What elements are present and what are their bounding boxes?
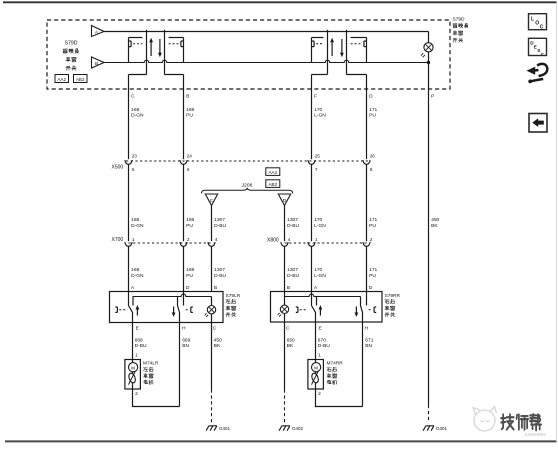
wire line B (window down feed) with hops xyxy=(104,60,429,62)
svg-text:1307: 1307 xyxy=(287,267,298,273)
svg-text:PU: PU xyxy=(186,113,193,119)
motor M74RR pin 2 xyxy=(318,391,321,397)
wire 1307 D-BU segment 2 xyxy=(284,206,286,242)
right rear window switch S79RR outline xyxy=(271,292,383,323)
svg-text:L-GN: L-GN xyxy=(314,273,326,279)
switch S79D LR pair left detent bracket xyxy=(129,41,142,47)
label 1307 D-BU (seg 2) xyxy=(214,217,226,229)
pin B of S79D xyxy=(186,93,189,99)
wire to ground G402 (dashed) xyxy=(284,390,286,423)
pin B rear switch top xyxy=(214,285,217,291)
svg-text:2: 2 xyxy=(187,237,190,242)
svg-text:X500: X500 xyxy=(112,164,124,170)
wire 450 BK from pin P xyxy=(428,89,430,405)
wire 670 D-BU to motor xyxy=(315,322,317,360)
pin D of S79D xyxy=(369,93,373,99)
connector X800 terminal 2 xyxy=(363,237,373,246)
S79RR illumination lamp xyxy=(278,297,289,317)
label 1307 D-BU (seg 2) xyxy=(287,217,299,229)
label 169 PU (seg 1) xyxy=(186,107,194,119)
S79RR up arrow xyxy=(319,305,323,316)
S79RR wire from pin B xyxy=(284,292,286,297)
pin F of S79D xyxy=(314,93,317,99)
svg-text:171: 171 xyxy=(369,267,377,273)
wire 1307 D-BU segment 3 xyxy=(211,246,213,291)
svg-text:H: H xyxy=(365,326,369,332)
wire 168 D-GN segment 3 xyxy=(128,246,130,291)
switch S79D RR pair down arrow xyxy=(340,39,344,57)
svg-text:C: C xyxy=(131,93,135,99)
svg-text:C: C xyxy=(213,326,217,332)
svg-text:450: 450 xyxy=(431,217,439,223)
S79RR right detent bracket xyxy=(369,307,377,312)
label J206 xyxy=(242,183,253,189)
svg-text:H: H xyxy=(182,326,186,332)
label 450 BK (left) xyxy=(214,337,222,349)
switch S79D RR pair up blade xyxy=(327,30,329,75)
S79RR up switch blade xyxy=(312,306,316,323)
svg-text:7: 7 xyxy=(315,167,318,172)
S79RR left detent bracket xyxy=(296,307,307,312)
svg-text:PU: PU xyxy=(369,113,376,119)
svg-text:170: 170 xyxy=(314,107,322,113)
brace J206 xyxy=(202,188,293,194)
S79RR wire from pin D xyxy=(366,292,368,306)
pin P of S79D xyxy=(431,93,434,99)
svg-text:2: 2 xyxy=(135,391,138,397)
switch S79D LR pair right detent bracket xyxy=(169,41,183,47)
svg-text:2: 2 xyxy=(370,237,373,242)
svg-text:J206: J206 xyxy=(242,183,253,189)
wire 1307 D-BU segment 2 xyxy=(211,206,213,242)
connector triangle A xyxy=(92,26,105,37)
svg-text:170: 170 xyxy=(314,217,322,223)
svg-text:D: D xyxy=(369,285,373,291)
label 671 BN xyxy=(365,337,373,349)
label 669 BN xyxy=(182,337,190,349)
pin E of S79LR xyxy=(136,326,140,332)
svg-text:X700: X700 xyxy=(112,237,124,243)
svg-text:G301: G301 xyxy=(436,426,448,431)
svg-text:25: 25 xyxy=(315,154,321,159)
label 168 D-GN (seg 2) xyxy=(131,217,144,229)
label S79D driver window switch (right) xyxy=(453,17,468,43)
svg-text:D-BU: D-BU xyxy=(214,273,226,279)
watermark text 技师帮 xyxy=(501,414,541,430)
wire 170 L-GN segment 1 xyxy=(311,89,313,159)
wire 169 PU segment 3 xyxy=(183,246,185,291)
svg-text:S79LR: S79LR xyxy=(226,293,241,299)
label M74RR xyxy=(327,361,344,385)
wire 171 PU segment 3 xyxy=(366,246,368,291)
label X800 xyxy=(267,237,279,243)
svg-text:B: B xyxy=(214,285,217,291)
S79LR down arrow xyxy=(172,307,176,318)
connector tag AA2 (top) xyxy=(55,75,69,83)
svg-text:M74LR: M74LR xyxy=(143,361,159,367)
pin H of S79RR xyxy=(365,326,369,332)
svg-text:D: D xyxy=(283,198,287,204)
junction lamp to line B xyxy=(427,52,430,89)
motor M74RR position symbol xyxy=(311,371,320,385)
connector X700 terminal 2 xyxy=(180,237,190,246)
svg-text:169: 169 xyxy=(186,267,194,273)
svg-text:24929992: 24929992 xyxy=(525,432,547,438)
svg-text:169: 169 xyxy=(186,107,194,113)
connector X800 terminal 4 xyxy=(281,237,291,246)
S79LR wire from pin A xyxy=(128,292,130,306)
motor M74RR outline xyxy=(308,360,324,390)
S79RR down switch blade xyxy=(361,306,363,323)
wire 170 L-GN segment 3 xyxy=(311,246,313,291)
pin C of S79D xyxy=(131,93,135,99)
wire line A (window up feed) xyxy=(104,31,429,33)
motor M74LR outline xyxy=(125,360,140,390)
svg-text:BK: BK xyxy=(214,343,221,349)
svg-text:24: 24 xyxy=(187,154,193,159)
S79LR up arrow xyxy=(136,305,140,316)
svg-text:M74RR: M74RR xyxy=(327,361,344,367)
connector X700 terminal 1 xyxy=(125,237,135,246)
svg-text:168: 168 xyxy=(131,217,139,223)
page top border xyxy=(3,1,557,3)
S79LR up switch blade xyxy=(129,306,133,323)
S79LR bus contact drop right xyxy=(177,297,179,306)
left rear window switch S79LR outline xyxy=(110,292,224,323)
motor M74RR pin 1 xyxy=(318,352,321,358)
svg-text:BN: BN xyxy=(182,343,189,349)
page bottom border xyxy=(5,440,557,442)
label 170 L-GN (seg 2) xyxy=(314,217,326,229)
svg-text:C: C xyxy=(286,326,290,332)
motor M74RR internal wire xyxy=(315,360,317,390)
label S79LR left rear window switch xyxy=(226,293,241,317)
svg-text:AB2: AB2 xyxy=(268,182,277,187)
label G402 xyxy=(292,426,304,431)
label G301 xyxy=(436,426,448,431)
pin C of S79LR xyxy=(213,326,217,332)
svg-text:171: 171 xyxy=(369,217,377,223)
pin A rear switch top xyxy=(131,285,135,291)
S79LR left detent bracket xyxy=(115,307,126,312)
svg-text:D: D xyxy=(369,93,373,99)
label 450 BK xyxy=(431,217,439,229)
svg-text:4: 4 xyxy=(215,237,218,242)
svg-text:669: 669 xyxy=(182,337,190,343)
svg-text:4: 4 xyxy=(288,237,291,242)
label 650 BK xyxy=(287,337,295,349)
svg-text:X800: X800 xyxy=(267,237,279,243)
label 170 L-GN (seg 3) xyxy=(314,267,326,279)
svg-text:171: 171 xyxy=(369,107,377,113)
motor M74LR armature xyxy=(129,363,138,372)
wire 650 BK to ground xyxy=(284,322,286,390)
connector X700 terminal 4 xyxy=(208,237,218,246)
page right edge line xyxy=(556,3,558,441)
icon harness routing arrow xyxy=(527,64,548,83)
pin C of S79RR xyxy=(286,326,290,332)
svg-text:D-BU: D-BU xyxy=(214,223,226,229)
svg-text:2: 2 xyxy=(318,391,321,397)
svg-text:S79D: S79D xyxy=(453,17,466,23)
svg-text:450: 450 xyxy=(214,337,222,343)
motor M74RR armature xyxy=(312,363,321,372)
svg-text:1307: 1307 xyxy=(214,267,225,273)
icon back button xyxy=(529,114,547,133)
pin A rear switch top xyxy=(314,285,318,291)
connector tag AB2 (middle) xyxy=(266,180,280,188)
switch S79D LR pair down arrow xyxy=(158,39,162,57)
svg-text:AB2: AB2 xyxy=(76,77,85,82)
ground G402 xyxy=(279,426,290,431)
label 169 PU (seg 3) xyxy=(186,267,194,279)
svg-text:B: B xyxy=(95,61,98,67)
wire 171 PU segment 1 xyxy=(366,89,368,159)
wire 668 D-BU to motor xyxy=(132,323,134,360)
svg-text:670: 670 xyxy=(318,337,326,343)
S79RR lamp to pin C xyxy=(284,314,286,323)
wire 168 D-GN segment 2 xyxy=(128,164,130,241)
switch S79D RR pair left detent bracket xyxy=(312,41,323,47)
wire to ground G401 (dashed) xyxy=(211,390,213,423)
S79RR down arrow xyxy=(355,307,359,318)
label 171 PU (seg 3) xyxy=(369,267,377,279)
wire S79D RR pair right exit jog xyxy=(347,75,367,90)
wire to ground G301 (dashed) xyxy=(428,405,430,422)
svg-text:D-GN: D-GN xyxy=(131,273,144,279)
svg-text:168: 168 xyxy=(131,107,139,113)
switch S79D RR pair right contact bar xyxy=(351,38,367,63)
icon LOC button xyxy=(529,14,547,31)
ground G301 xyxy=(423,426,434,431)
svg-text:S79D: S79D xyxy=(65,41,78,47)
svg-text:D-BU: D-BU xyxy=(135,343,147,349)
label 1307 D-BU (seg 3) xyxy=(287,267,299,279)
wire 450 BK to ground xyxy=(211,323,213,390)
svg-text:C: C xyxy=(210,198,214,204)
pin E of S79RR xyxy=(319,326,323,332)
label S79RR right rear window switch xyxy=(385,293,401,317)
svg-text:668: 668 xyxy=(135,337,143,343)
svg-text:169: 169 xyxy=(186,217,194,223)
svg-text:23: 23 xyxy=(132,154,138,159)
switch S79D RR pair up arrow xyxy=(330,38,334,56)
label 668 D-BU xyxy=(135,337,147,349)
svg-text:B: B xyxy=(186,93,189,99)
svg-text:PU: PU xyxy=(186,273,193,279)
svg-text:BK: BK xyxy=(431,223,438,229)
svg-text:C: C xyxy=(540,25,544,31)
svg-text:B: B xyxy=(287,285,290,291)
svg-text:O: O xyxy=(535,21,539,27)
S79LR bus from pin B with hop xyxy=(133,294,212,296)
svg-text:G402: G402 xyxy=(292,426,304,431)
connector X800 terminal 1 xyxy=(308,237,318,246)
svg-text:PU: PU xyxy=(369,223,376,229)
S79RR bus contact drop left switch xyxy=(316,297,318,306)
pin D rear switch top xyxy=(186,285,190,291)
motor M74LR position symbol xyxy=(128,371,137,385)
switch S79D LR pair right contact bar xyxy=(169,38,184,63)
label 171 PU (seg 2) xyxy=(369,217,377,229)
switch S79D LR pair down blade xyxy=(164,30,166,75)
connector triangle B xyxy=(92,57,105,68)
label 670 D-BU xyxy=(318,337,330,349)
label 168 D-GN (seg 3) xyxy=(131,267,144,279)
watermark number xyxy=(525,432,547,438)
watermark cat logo xyxy=(473,407,497,432)
svg-text:1: 1 xyxy=(135,352,138,358)
switch S79D RR pair down blade xyxy=(346,30,348,75)
connector triangle D xyxy=(278,194,290,206)
S79LR illumination lamp xyxy=(205,297,216,318)
svg-text:1: 1 xyxy=(318,352,321,358)
label 170 L-GN (seg 1) xyxy=(314,107,326,119)
svg-text:G401: G401 xyxy=(219,426,231,431)
switch S79D RR pair right detent bracket xyxy=(351,41,366,47)
svg-text:P: P xyxy=(431,93,434,99)
svg-text:D-GN: D-GN xyxy=(131,113,144,119)
label G401 xyxy=(219,426,231,431)
connector triangle C xyxy=(205,194,217,206)
S79LR wire from pin D xyxy=(183,292,185,306)
svg-text:L-GN: L-GN xyxy=(314,113,326,119)
svg-text:6: 6 xyxy=(187,167,190,172)
svg-text:PU: PU xyxy=(369,273,376,279)
label 171 PU (seg 1) xyxy=(369,107,377,119)
wire M74LR return to 669 BN xyxy=(133,389,180,407)
svg-text:D-GN: D-GN xyxy=(131,223,144,229)
connector X500 terminal 25/7 xyxy=(308,154,320,172)
svg-text:168: 168 xyxy=(131,267,139,273)
wire M74RR return to 671 BN xyxy=(316,389,363,407)
wire 450 BK lower segment xyxy=(428,404,430,406)
svg-text:D-BU: D-BU xyxy=(287,223,299,229)
motor M74LR pin 1 xyxy=(135,352,138,358)
ground G401 xyxy=(206,426,217,431)
driver window switch S79D dashed outline xyxy=(47,20,450,89)
connector X500 terminal 26/8 xyxy=(363,154,375,172)
motor M74LR pin 2 xyxy=(135,391,138,397)
svg-text:671: 671 xyxy=(365,337,373,343)
S79LR down switch blade xyxy=(178,306,180,323)
svg-text:170: 170 xyxy=(314,267,322,273)
connector X500 terminal 24/6 xyxy=(180,154,192,172)
connector X700 dotted line xyxy=(129,242,214,244)
svg-text:PU: PU xyxy=(186,223,193,229)
wire 671 BN xyxy=(362,322,364,407)
wire S79D RR pair left exit jog xyxy=(312,75,328,90)
label 169 PU (seg 2) xyxy=(186,217,194,229)
connector tag AA2 (middle) xyxy=(266,168,280,176)
wire 171 PU segment 2 xyxy=(366,164,368,241)
wire S79D LR pair right exit jog xyxy=(165,75,184,90)
wire 669 BN xyxy=(179,323,181,407)
connector X500 dotted line xyxy=(126,160,368,162)
svg-text:1: 1 xyxy=(132,237,135,242)
svg-text:26: 26 xyxy=(370,154,376,159)
switch S79D RR pair left contact bar xyxy=(312,38,324,63)
svg-text:1307: 1307 xyxy=(287,217,298,223)
svg-text:D-BU: D-BU xyxy=(287,273,299,279)
S79RR bus with hop xyxy=(285,294,361,296)
connector tag AB2 (top) xyxy=(74,75,88,83)
svg-text:1: 1 xyxy=(315,237,318,242)
label 168 D-GN (seg 1) xyxy=(131,107,144,119)
pin B rear switch top xyxy=(287,285,290,291)
motor M74LR internal wire xyxy=(132,360,134,390)
wire 169 PU segment 2 xyxy=(183,164,185,241)
svg-text:650: 650 xyxy=(287,337,295,343)
switch S79D LR pair up blade xyxy=(146,30,148,75)
label M74LR xyxy=(143,361,159,385)
switch S79D LR pair up arrow xyxy=(149,38,153,56)
svg-text:F: F xyxy=(314,93,317,99)
svg-text:5: 5 xyxy=(132,167,135,172)
pin H of S79LR xyxy=(182,326,186,332)
wire 169 PU segment 1 xyxy=(183,89,185,159)
S79LR lamp to pin C xyxy=(211,314,213,323)
svg-text:BN: BN xyxy=(365,343,372,349)
label X700 xyxy=(112,237,124,243)
svg-text:8: 8 xyxy=(370,167,373,172)
svg-text:L: L xyxy=(531,16,534,22)
switch S79D LR pair left contact bar xyxy=(129,38,143,63)
connector X500 terminal 23/5 xyxy=(125,154,137,172)
svg-text:L-GN: L-GN xyxy=(314,223,326,229)
svg-text:M: M xyxy=(131,365,135,370)
connector X800 dotted line xyxy=(285,242,369,244)
svg-text:D-BU: D-BU xyxy=(318,343,330,349)
S79LR bus contact drop left xyxy=(132,297,134,306)
svg-text:AA2: AA2 xyxy=(57,77,66,82)
icon DESC button xyxy=(529,38,547,57)
wire S79D LR pair left exit jog xyxy=(129,75,147,90)
S79RR bus contact drop right switch xyxy=(360,297,362,306)
svg-text:AA2: AA2 xyxy=(268,170,277,175)
label S79D driver window switch (left) xyxy=(63,41,78,71)
S79LR right detent bracket xyxy=(186,307,193,312)
svg-text:BK: BK xyxy=(287,343,294,349)
S79RR wire from pin A xyxy=(311,292,313,306)
svg-text:M: M xyxy=(314,365,318,370)
pin D rear switch top xyxy=(369,285,373,291)
wire 170 L-GN segment 2 xyxy=(311,164,313,241)
label X500 xyxy=(112,164,124,170)
wire 168 D-GN segment 1 xyxy=(128,89,130,159)
illumination lamp in S79D xyxy=(421,32,433,58)
wire 1307 D-BU segment 3 xyxy=(284,246,286,291)
svg-text:1307: 1307 xyxy=(214,217,225,223)
label 1307 D-BU (seg 3) xyxy=(214,267,226,279)
svg-text:S79RR: S79RR xyxy=(385,293,401,299)
svg-text:D: D xyxy=(186,285,190,291)
